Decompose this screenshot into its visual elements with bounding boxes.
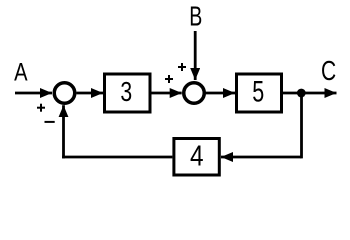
plus sign at S1	[37, 104, 45, 112]
plus sign left at S2	[165, 75, 173, 83]
svg-text:C: C	[321, 56, 336, 86]
svg-text:4: 4	[190, 140, 204, 172]
minus sign at S1	[45, 121, 55, 123]
summing junction S1	[54, 83, 75, 104]
wire S1 to block 3	[77, 92, 104, 95]
block 3	[105, 74, 151, 112]
wire feedback: up into S1	[62, 105, 65, 158]
svg-text:A: A	[14, 57, 28, 86]
wire block 5 to output C	[283, 92, 337, 95]
summing junction S2	[184, 83, 205, 104]
wire input B arrow	[194, 31, 197, 80]
plus sign upper at S2	[178, 63, 186, 71]
wire feedback: right horizontal into block 4	[221, 156, 302, 159]
svg-text:3: 3	[120, 77, 132, 107]
wire feedback: left horizontal from block 4	[62, 156, 172, 159]
block 5	[237, 74, 282, 112]
wire S2 to block 5	[205, 92, 236, 95]
wire block 3 to S2	[152, 92, 182, 95]
junction dot node	[297, 89, 306, 98]
wire feedback: node down	[300, 93, 303, 158]
block 4	[174, 139, 219, 176]
svg-text:5: 5	[252, 76, 264, 108]
svg-text:B: B	[189, 1, 202, 32]
wire input A arrow	[15, 92, 52, 95]
